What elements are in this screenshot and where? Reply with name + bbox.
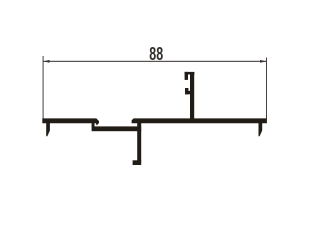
snap-in top hook bar [185, 72, 195, 75]
snap-in lower hook finger [185, 88, 188, 94]
profile left retaining tab [46, 123, 50, 137]
profile left top flange [42, 118, 99, 125]
profile step web [92, 121, 95, 127]
profile right top flange [132, 118, 267, 123]
profile center leg [137, 122, 141, 162]
snap-in lower hook arm [185, 91, 191, 95]
snap-in top hook lip [185, 72, 188, 80]
profile right retaining tab [259, 123, 263, 137]
left extension line [43, 56, 44, 119]
left dimension arrow [43, 60, 49, 63]
dimension line [43, 61, 266, 62]
profile lower web bar [92, 126, 142, 131]
snap-in stem [190, 73, 194, 119]
right dimension arrow [260, 60, 266, 63]
profile center leg foot [133, 160, 142, 165]
right extension line [266, 58, 267, 120]
